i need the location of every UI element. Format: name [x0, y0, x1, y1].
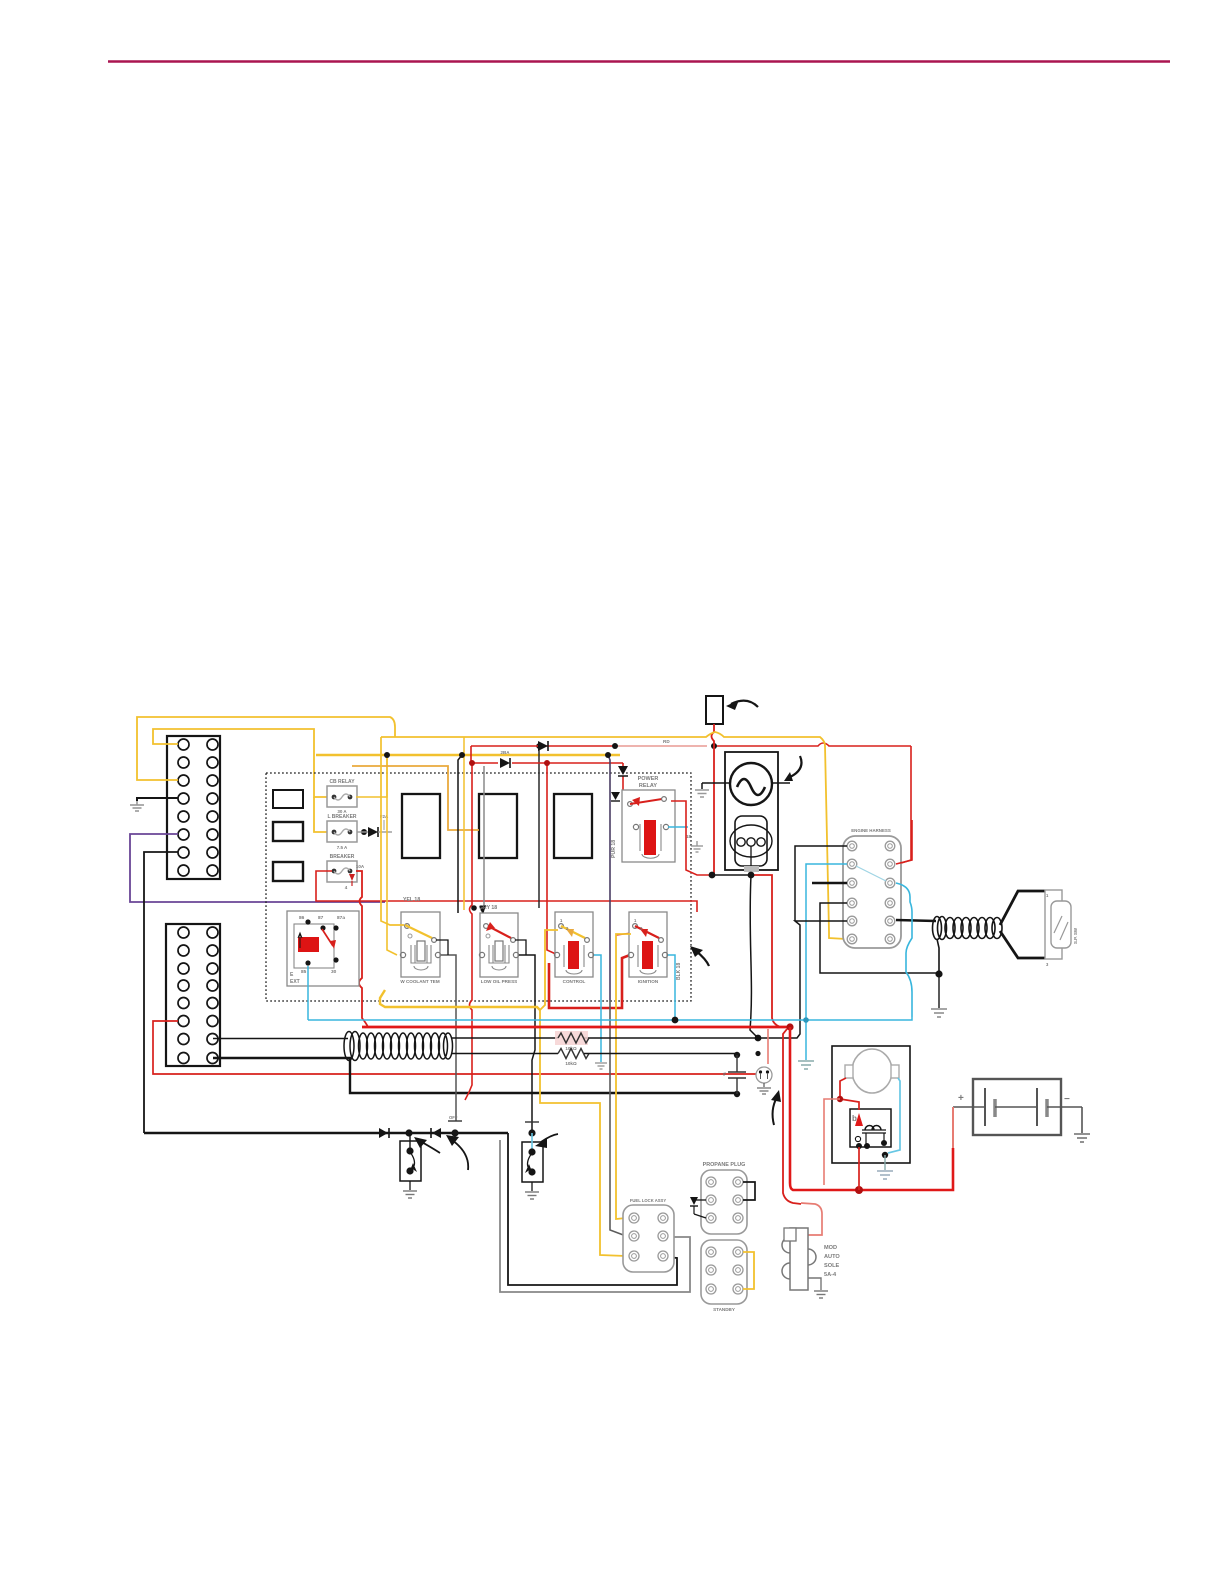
- callout arrow A6: [535, 1134, 558, 1148]
- wire black rail corner loop to J4: [508, 1133, 677, 1285]
- starter solenoid box: [850, 1109, 891, 1149]
- wire cyan motor right side: [888, 1078, 900, 1153]
- wire grey loop to J4 pin4R: [500, 1140, 690, 1292]
- wire red J3 pin6R from top: [896, 820, 912, 864]
- switch S4: [522, 1122, 543, 1191]
- relay K4 ignition: [628, 912, 667, 984]
- wire grey S1 output drop: [441, 955, 456, 1121]
- node dots top of rails: [755, 1051, 760, 1056]
- svg-text:CB RELAY: CB RELAY: [329, 779, 355, 785]
- wire black coil out y1053: [452, 1053, 558, 1055]
- ignition coil spring: [933, 917, 1003, 940]
- wire cyan K3 output to ground: [594, 955, 601, 1062]
- wire yellow mid horizontal y755: [316, 754, 620, 756]
- regulator plug: [730, 816, 772, 872]
- svg-text:STANDBY: STANDBY: [713, 1307, 735, 1312]
- fuse F1: [327, 779, 357, 814]
- wire yellow bus down to fuse F2: [314, 797, 332, 832]
- socket rect C: [273, 862, 303, 881]
- capacitor C1: [723, 1052, 746, 1097]
- svg-text:4: 4: [345, 885, 348, 890]
- dashed control box: [266, 773, 691, 1001]
- wire red y763 with link: [471, 746, 623, 763]
- wire yellow drop x464: [463, 737, 465, 910]
- starter motor: [845, 1049, 899, 1093]
- svg-text:PROPANE PLUG: PROPANE PLUG: [703, 1162, 746, 1168]
- label GRY 18: [479, 905, 497, 911]
- wire red thick U under relays: [549, 955, 630, 1008]
- svg-text:GRY 18: GRY 18: [479, 905, 497, 911]
- wire yellow long top y737 to J3: [381, 732, 846, 939]
- svg-text:EXT: EXT: [290, 979, 300, 985]
- ground G2: [695, 790, 709, 797]
- svg-text:SOLE: SOLE: [824, 1263, 839, 1269]
- svg-text:87: 87: [318, 915, 324, 921]
- svg-text:MOD: MOD: [824, 1245, 837, 1251]
- wire red drop x472: [465, 763, 472, 1100]
- ground G8: [525, 1192, 539, 1199]
- wire cyan long bottom bus y1020: [308, 1017, 912, 1020]
- svg-text:YEL 18: YEL 18: [403, 897, 420, 903]
- socket rect B: [273, 822, 303, 841]
- wire red x623 into power relay: [622, 763, 624, 790]
- wire black drop x539: [536, 743, 542, 908]
- wire red thick bottom rail y1028: [362, 1026, 790, 1029]
- top horizontal rule: [108, 60, 1170, 63]
- svg-text:5A-4: 5A-4: [824, 1272, 837, 1278]
- wire black alternator right stub: [772, 782, 790, 784]
- wire black J1 pin4 to ground: [137, 798, 178, 801]
- svg-text:ENGINE HARNESS: ENGINE HARNESS: [851, 828, 891, 833]
- ground G1: [130, 801, 144, 811]
- wire red fuse F3 output down to bottom rail: [356, 871, 368, 1027]
- relay S1 coolant temp: [400, 912, 440, 984]
- callout arrow A3: [690, 946, 709, 966]
- ground G9: [877, 1171, 893, 1179]
- wire red drop x547 to relay K3: [547, 763, 558, 955]
- node dot red battery rail: [855, 1186, 863, 1194]
- wire black drop from node x458: [458, 755, 462, 913]
- svg-text:−: −: [1064, 1094, 1070, 1105]
- svg-text:86: 86: [299, 915, 305, 921]
- svg-text:30: 30: [331, 969, 337, 975]
- svg-text:18: 18: [686, 834, 692, 839]
- svg-text:AUTO: AUTO: [824, 1254, 840, 1260]
- wire black S2 switch out: [515, 940, 526, 955]
- resistor R1 10k: [555, 1031, 589, 1051]
- node dots in dashed box area: [384, 743, 717, 911]
- module rect M2: [479, 794, 517, 858]
- wire red vertical x790 to battery rail: [790, 1027, 953, 1190]
- connector P2 standby: [701, 1240, 747, 1312]
- svg-text:W COOLANT TEM: W COOLANT TEM: [400, 979, 439, 984]
- ground G10: [814, 1291, 828, 1298]
- callout arrow A5a: [414, 1137, 440, 1153]
- battery BT1: [953, 1079, 1082, 1135]
- wire pale red spark feed: [767, 1029, 769, 1064]
- svg-text:85: 85: [301, 969, 307, 975]
- wire yellow thick bottom bus y1007: [380, 990, 540, 1010]
- wire black coil bottom to ground node: [937, 939, 939, 973]
- svg-text:FUEL LOCK ASSY: FUEL LOCK ASSY: [630, 1198, 667, 1203]
- solenoid L1 MOD AUTO: [782, 1228, 840, 1290]
- fuse F2: [327, 814, 357, 850]
- ground G5: [798, 1061, 814, 1069]
- diode D4 vertical at power relay: [618, 766, 628, 776]
- svg-text:S.P. SW: S.P. SW: [1073, 927, 1078, 944]
- wire black coil out top y1038: [452, 1037, 558, 1039]
- node dot cyan bus: [672, 1017, 679, 1024]
- callout arrow A7: [771, 1090, 781, 1125]
- socket rect A: [273, 790, 303, 808]
- spark gap plug: [756, 1067, 772, 1087]
- alternator box: [725, 752, 778, 870]
- module rect M3: [554, 794, 592, 858]
- diode D3 after fuse F2: [357, 814, 392, 837]
- wire black J2 pin8 thick to choke coil: [213, 1058, 737, 1093]
- wire black S2 output drop: [519, 955, 535, 1133]
- fuse F3: [327, 854, 357, 890]
- wire red down to solenoid L1: [801, 1203, 822, 1235]
- diode D2 on red y746: [538, 741, 548, 751]
- wire battery negative to ground: [1081, 1107, 1083, 1133]
- wire red motor to solenoid: [840, 1078, 859, 1110]
- wire cyan from K2 to bottom rail: [307, 966, 309, 1020]
- ground G7: [403, 1191, 417, 1198]
- diode D5 vertical small: [611, 792, 620, 801]
- rocker switch SW1: [1045, 890, 1078, 967]
- node dot y1038 rail: [755, 1035, 762, 1042]
- wire red y746 top: [471, 743, 911, 746]
- diode D8 at P1: [690, 1197, 706, 1218]
- wire red y746 right segment to J3: [898, 746, 911, 864]
- starter box: [832, 1046, 910, 1163]
- connector J2 (lower left 16-pin): [166, 924, 220, 1066]
- node dots starter bottom: [882, 1152, 888, 1158]
- callout arrow A5b: [446, 1135, 468, 1170]
- svg-text:+: +: [958, 1093, 964, 1104]
- svg-text:POWER: POWER: [638, 776, 659, 782]
- svg-text:#: #: [723, 1072, 726, 1078]
- wire purple PUR18 long drop: [608, 755, 626, 1236]
- wire yellow K4 drop to J4 pin1: [616, 934, 631, 1219]
- svg-text:10A: 10A: [356, 864, 365, 869]
- svg-text:2BA: 2BA: [500, 750, 510, 755]
- wire black J3 pin1L left drop: [795, 846, 847, 921]
- wire black J2 pin7 to choke coil: [213, 1038, 348, 1040]
- ground G6 cyan: [595, 1063, 607, 1069]
- wire cyan power relay right: [668, 827, 692, 839]
- connector J1 (upper left 16-pin): [167, 736, 220, 879]
- wire black J3 pin3L stub: [812, 882, 847, 884]
- alternator AC symbol: [730, 763, 772, 805]
- wire red vertical x783: [783, 1029, 801, 1204]
- svg-text:OFF: OFF: [449, 1115, 458, 1120]
- wire black J3 pin4L frame: [820, 903, 939, 973]
- svg-text:L BREAKER: L BREAKER: [327, 814, 356, 820]
- wire black coil V to switch: [1000, 891, 1046, 958]
- wire grey to starter ground: [884, 1155, 886, 1170]
- node dot alternator rail left: [709, 872, 716, 879]
- wire black J3 pin5R to ignition coil: [896, 920, 936, 921]
- svg-text:BLK 18: BLK 18: [676, 963, 682, 980]
- node dot under coil: [935, 970, 942, 977]
- svg-text:b: b: [852, 1114, 857, 1123]
- svg-text:RELAY: RELAY: [639, 783, 657, 789]
- diode D1 on red y763: [500, 750, 510, 768]
- wire red power relay output to alternator rail: [671, 801, 712, 875]
- wire red horizontal y901 inside box: [362, 901, 697, 912]
- wire yellow J1 pin3 long top run: [137, 717, 395, 780]
- red mini diode at fuse F3: [349, 864, 365, 886]
- connector J4 6-pin: [623, 1198, 674, 1272]
- ground G11: [757, 1088, 771, 1094]
- wire black J1 pin7 long left vertical: [144, 852, 178, 1133]
- wire red fuse F3 feed from left: [316, 871, 362, 901]
- switch S3: [400, 1133, 421, 1190]
- wire black P1 jumper bracket: [743, 1182, 755, 1200]
- relay K1 power relay: [622, 776, 675, 862]
- wire red relay4 blade feed: [616, 933, 632, 935]
- label PUR 18: [611, 840, 617, 858]
- relay S2 low oil press: [479, 913, 518, 984]
- callout arrow A1: [726, 700, 758, 710]
- wire black node to ground: [938, 974, 940, 1008]
- label RD on red wire: [663, 739, 670, 744]
- wire yellow J1 pin1 to fuse F1: [153, 729, 332, 797]
- wire red solenoid bottom to rail: [858, 1147, 860, 1190]
- svg-text:BREAKER: BREAKER: [330, 854, 355, 860]
- callout arrow A2: [784, 756, 802, 781]
- wire black alternator left to ground: [702, 783, 730, 789]
- label YEL 18: [403, 897, 420, 903]
- wire yellow drop to relay R1 area: [387, 755, 397, 955]
- wire cyan J3 pin2L: [806, 864, 847, 1020]
- module rect M1: [402, 794, 440, 858]
- svg-text:10kΩ: 10kΩ: [565, 1061, 577, 1066]
- node dot red starter: [837, 1096, 843, 1102]
- diode D7 on rail: [431, 1128, 441, 1138]
- wire cyan K4 output: [668, 955, 675, 1020]
- node dot rail x409: [405, 1129, 412, 1136]
- wire yellow fuse F1 output riser: [356, 755, 387, 797]
- wire red hourmeter drop: [712, 724, 715, 875]
- svg-text:7.5 A: 7.5 A: [337, 845, 348, 850]
- wire cyan J3 pin3R wavy drop: [896, 883, 912, 1017]
- svg-text:LOW OIL PRESS: LOW OIL PRESS: [481, 979, 517, 984]
- svg-text:87a: 87a: [337, 915, 345, 921]
- svg-text:IGNITION: IGNITION: [638, 979, 659, 984]
- relay K3 control: [554, 912, 593, 984]
- T sensor symbol above node: [448, 1115, 462, 1121]
- hourmeter rect: [706, 696, 723, 724]
- wire cyan ground branch: [803, 1017, 809, 1060]
- node dot red rail: [786, 1023, 793, 1030]
- ground G3: [1074, 1134, 1090, 1142]
- svg-text:CONTROL: CONTROL: [563, 979, 586, 984]
- node dot alternator rail right: [748, 872, 755, 879]
- connector J3 12-pin: [843, 828, 901, 948]
- diode D6 on rail: [379, 1128, 389, 1138]
- svg-text:3: 3: [1046, 962, 1049, 967]
- wire red battery positive drop: [952, 1107, 954, 1148]
- wire black thick switch rail y1133: [144, 1132, 508, 1135]
- wire black R2 out to capacitor top: [584, 1053, 737, 1055]
- wire purple J1 pin6: [130, 834, 385, 902]
- svg-text:RD: RD: [663, 739, 670, 744]
- ground G12 at power relay: [691, 841, 703, 852]
- wire yellow K3 drop to J4: [540, 930, 626, 1256]
- wire pale red starter to solenoid L1 branch: [824, 1099, 840, 1185]
- wire black J3 pin5L to y1038: [584, 921, 847, 1038]
- wire orange y766: [352, 766, 479, 830]
- wire grey GRY18 drop: [479, 766, 486, 915]
- relay K2 E EXT box: [287, 911, 359, 986]
- wire red J2 pin6 bottom rail: [153, 1021, 756, 1074]
- wire black S1 switch out: [436, 940, 448, 955]
- svg-text:PUR 18: PUR 18: [611, 840, 617, 858]
- resistor R2 10k: [558, 1049, 589, 1067]
- choke coil spring lower: [344, 1032, 453, 1061]
- wire red alternator bottom to spark drop: [751, 875, 790, 1027]
- node dot rail x455: [451, 1129, 458, 1136]
- connector P1 propane plug: [701, 1162, 747, 1234]
- ground G4: [931, 1009, 947, 1017]
- label BLK 18 cyan vertical: [676, 963, 682, 980]
- wire black regulator bottom rail: [712, 875, 758, 1038]
- wire yellow P2 jumper: [743, 1252, 754, 1289]
